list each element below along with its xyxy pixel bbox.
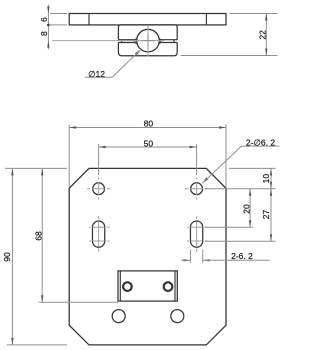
terminal block inner edge right (174, 271, 176, 301)
dim tail line right of slot (203, 259, 270, 261)
clamp slit lower edge right (158, 43, 177, 45)
center marks slot right (187, 216, 208, 252)
extension line bottom 90 (7, 344, 67, 346)
arrow left 50 (99, 146, 106, 148)
extension line 22 bottom (181, 55, 278, 57)
leader line ⌀12 (85, 49, 141, 77)
arrow down 27 bottom (270, 234, 272, 241)
extension line plate top (50, 13, 67, 15)
svg-text:90: 90 (2, 252, 12, 262)
dimension 68 line (41, 168, 43, 302)
block hole right (164, 282, 173, 291)
svg-text:8: 8 (39, 31, 49, 36)
bore center cross vertical (147, 34, 149, 47)
bore center cross horizontal (142, 40, 155, 42)
arrow down 22 bottom (265, 49, 267, 56)
vertical centerline of bore (147, 26, 149, 57)
arrow up 22 top (265, 14, 267, 21)
plate left chamfer projection line (88, 14, 90, 25)
dimension 10/27 shared line (270, 168, 272, 241)
clamp slit lower edge left (118, 43, 137, 45)
extension line slot top center (205, 226, 253, 228)
terminal block inner edge left (119, 271, 121, 301)
arrow up 27 top (270, 189, 272, 196)
arrow down 68 (41, 295, 43, 302)
svg-text:6: 6 (39, 17, 49, 22)
arrow up 20 top (249, 189, 251, 196)
front view plate outline with corner chamfers (69, 168, 226, 345)
arrow down 90 (11, 338, 13, 345)
plate right chamfer projection line (205, 14, 207, 25)
extension line slot right edge (202, 250, 204, 263)
svg-text:22: 22 (258, 30, 268, 40)
svg-text:2-∅6. 2: 2-∅6. 2 (246, 138, 275, 148)
arrow left at slot right edge (203, 259, 210, 261)
bore hole ⌀12 (137, 29, 160, 52)
horizontal centerline of bore + 8-dim extension line (53, 40, 165, 42)
extension line 50 right (196, 144, 198, 175)
svg-text:68: 68 (33, 231, 43, 241)
dimension 80 line (69, 127, 226, 129)
arrow down 10 bottom (270, 182, 272, 189)
extension line hole center right (205, 188, 276, 190)
bottom hole right (171, 310, 184, 323)
svg-text:∅12: ∅12 (88, 69, 105, 79)
hole top-right ⌀6.2 (191, 183, 203, 195)
extension line 50 left (98, 144, 100, 175)
arrow right 50 (190, 146, 197, 148)
slit relief tick right outer (173, 40, 175, 43)
extension line top for 90 and 68 (5, 167, 67, 169)
center marks hole top-right (185, 177, 208, 199)
arrow right 80 (219, 126, 226, 128)
svg-text:27: 27 (261, 210, 271, 220)
slit relief tick right inner (160, 40, 162, 43)
extension line 80 right (225, 125, 227, 188)
block hole left (123, 282, 132, 291)
side view plate outline (69, 14, 226, 25)
clamp block lower half (118, 43, 177, 56)
arrow down at plate top (47, 7, 49, 14)
svg-text:2-6. 2: 2-6. 2 (231, 251, 253, 261)
junction dot at plate bottom (47, 24, 50, 27)
label 2-⌀6.2 leader (202, 177, 208, 183)
dimension 22 line (265, 14, 267, 56)
extension line slot bottom center (205, 240, 276, 242)
dimension 6/8 stack line (47, 5, 49, 50)
dim tail line left of slot (181, 259, 190, 261)
dimension 50 line (99, 146, 197, 148)
slit relief tick left outer (121, 40, 123, 43)
arrow left 80 (69, 126, 76, 128)
extension line 80 left (68, 125, 70, 188)
clamp block upper half (118, 25, 177, 40)
hole top-left ⌀6.2 (93, 183, 105, 195)
arrow up 90 (11, 168, 13, 175)
extension line 10 top (plate top right) (229, 167, 276, 169)
arrow up 10 top (270, 168, 272, 175)
arrow down 20 bottom (249, 220, 251, 227)
center marks hole top-left (87, 177, 110, 199)
svg-text:50: 50 (144, 139, 154, 149)
extension line 22 top (230, 13, 278, 15)
arrow up at bore center (47, 41, 49, 48)
svg-text:10: 10 (261, 174, 271, 184)
slot right 6.2 obround (190, 221, 202, 247)
extension line plate bottom (50, 24, 67, 26)
slit relief tick left inner (134, 40, 136, 43)
bottom hole left (112, 310, 125, 323)
svg-text:20: 20 (241, 204, 251, 214)
clamp slit upper edge right (159, 38, 178, 40)
terminal block outline (118, 271, 177, 301)
arrow right at slot left edge (183, 259, 190, 261)
dimension 20 line (249, 189, 251, 228)
center marks slot left (89, 216, 110, 252)
leader arrow ⌀12 (135, 49, 141, 55)
extension line slot left edge (189, 250, 191, 263)
arrow up 68 (41, 168, 43, 175)
svg-text:80: 80 (144, 119, 154, 129)
clamp slit upper edge left (118, 38, 137, 40)
dimension 90 line (11, 168, 13, 345)
slot left 6.2 obround (92, 221, 104, 247)
extension line bottom 68 (39, 301, 119, 303)
